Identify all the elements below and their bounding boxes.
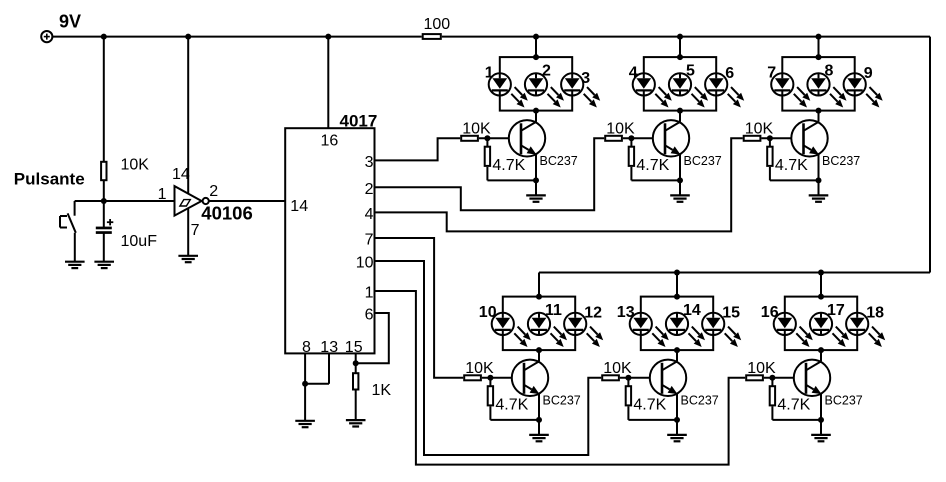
- wire emitter stage 6: [820, 394, 822, 435]
- svg-text:2: 2: [365, 181, 374, 198]
- junction top rail / LED group 1-3: [533, 34, 539, 40]
- wire 10K to base stage 1: [479, 137, 521, 139]
- wire bottom LED rail: [539, 272, 930, 274]
- ground (1K): [346, 420, 366, 426]
- LED 3: [561, 73, 600, 107]
- svg-text:14: 14: [172, 166, 190, 183]
- label 10K pullup: [121, 157, 150, 174]
- label 9V: [59, 11, 81, 31]
- wire pin3 to stage1 10K: [375, 138, 461, 160]
- svg-text:3: 3: [581, 70, 590, 87]
- node base stage 5: [625, 375, 631, 381]
- svg-text:8: 8: [302, 339, 311, 356]
- wire 10K to base stage 2: [623, 137, 665, 139]
- junction group 4-6 bottom: [677, 108, 683, 114]
- svg-text:4.7K: 4.7K: [636, 157, 669, 174]
- wire 4017 pin6 to pin15 node: [356, 313, 389, 363]
- LED 18: [846, 313, 885, 347]
- junction group 10-12 bottom: [536, 347, 542, 353]
- wire 4017 pin8 to ground: [304, 353, 306, 420]
- svg-text:4017: 4017: [340, 112, 378, 131]
- wire emitter stage 1: [535, 154, 537, 195]
- svg-text:Pulsante: Pulsante: [14, 169, 85, 188]
- label 4.7K stage 4: [495, 396, 528, 413]
- IC U2 4017 body: [285, 128, 374, 353]
- wire base node to 4.7K stage 5: [627, 378, 629, 386]
- wire node to inverter input: [104, 200, 175, 202]
- wire collector stage 4: [538, 350, 540, 362]
- label Pulsante: [14, 169, 85, 188]
- svg-text:15: 15: [345, 339, 363, 356]
- node base stage 6: [769, 375, 775, 381]
- svg-text:1: 1: [365, 285, 374, 302]
- wire 4.7K to emitter stage 4: [490, 407, 539, 420]
- resistor 4.7K (stage 5): [626, 386, 631, 405]
- label BC237 stage 4: [543, 393, 581, 407]
- label LED 17: [827, 302, 845, 319]
- svg-text:1: 1: [485, 64, 494, 81]
- svg-text:2: 2: [542, 62, 551, 79]
- transistor Q6 BC237: [794, 360, 830, 396]
- label 1K: [372, 382, 392, 399]
- LED 5: [669, 73, 708, 107]
- wire collector stage 1: [535, 110, 537, 122]
- label 40106: [201, 202, 252, 223]
- svg-text:11: 11: [545, 302, 562, 319]
- resistor 10K (stage 3 base): [744, 136, 761, 141]
- wire base node to 4.7K stage 2: [630, 138, 632, 146]
- LED 17: [810, 313, 849, 347]
- output bubble U1: [203, 198, 209, 204]
- resistor 10K (pullup): [101, 162, 106, 180]
- wire 1K to ground: [355, 391, 357, 421]
- LED 7: [771, 73, 810, 107]
- label 4.7K stage 6: [777, 396, 810, 413]
- resistor 10K (stage 4 base): [464, 375, 481, 380]
- resistor 4.7K (stage 1): [485, 147, 490, 166]
- junction group 4-6 top: [677, 54, 683, 60]
- label LED 12: [584, 304, 602, 321]
- svg-text:4.7K: 4.7K: [495, 396, 528, 413]
- ground (stage 3): [809, 195, 829, 201]
- svg-text:3: 3: [365, 154, 374, 171]
- wire capacitor to ground: [103, 234, 105, 262]
- svg-text:18: 18: [866, 304, 884, 321]
- junction top rail / 4017 pin16: [325, 34, 331, 40]
- LED 2: [525, 73, 564, 107]
- svg-text:40106: 40106: [201, 202, 252, 223]
- wire top rail right segment: [442, 36, 930, 38]
- svg-text:12: 12: [584, 304, 602, 321]
- junction group 1-3 top: [533, 54, 539, 60]
- node base stage 1: [484, 135, 490, 141]
- label 4017: [340, 112, 378, 131]
- node base stage 2: [628, 135, 634, 141]
- LED 12: [564, 313, 603, 347]
- wire 10K to base stage 3: [761, 137, 803, 139]
- svg-text:4.7K: 4.7K: [775, 157, 808, 174]
- wire collector stage 3: [818, 110, 820, 122]
- LED 14: [666, 313, 705, 347]
- wire pin7 to stage4 10K: [375, 238, 464, 378]
- label LED 18: [866, 304, 884, 321]
- svg-text:10K: 10K: [603, 360, 632, 377]
- wire 10K to base stage 5: [620, 377, 662, 379]
- junction emitter/4.7K stage 6: [818, 417, 824, 423]
- wire emitter stage 5: [676, 394, 678, 435]
- wire collector stage 5: [676, 350, 678, 362]
- LED 11: [528, 313, 567, 347]
- wire 4017 pin15 down: [355, 353, 357, 373]
- label pin 14 (4017 clock): [290, 198, 308, 215]
- wire 4.7K to emitter stage 5: [628, 407, 677, 420]
- label pin 6 (4017 output): [365, 307, 374, 324]
- wire collector stage 6: [820, 350, 822, 362]
- transistor Q1 BC237: [509, 120, 545, 156]
- svg-text:BC237: BC237: [684, 154, 722, 168]
- wire rail to group 1-3: [535, 37, 537, 58]
- svg-text:14: 14: [290, 198, 308, 215]
- label LED 4: [629, 64, 638, 81]
- svg-text:5: 5: [686, 62, 695, 79]
- node A (inverter input): [101, 198, 107, 204]
- svg-text:4: 4: [365, 206, 374, 223]
- label BC237 stage 6: [825, 393, 863, 407]
- label LED 5: [686, 62, 695, 79]
- LED 15: [702, 313, 741, 347]
- LED group 4-6 frame: [644, 57, 716, 111]
- label LED 10: [479, 304, 497, 321]
- label LED 8: [825, 62, 834, 79]
- label LED 9: [864, 65, 873, 82]
- label LED 3: [581, 70, 590, 87]
- transistor Q4 BC237: [512, 360, 548, 396]
- wire 4.7K to emitter stage 1: [487, 167, 536, 180]
- battery positive terminal +9V: [41, 31, 52, 42]
- svg-text:4: 4: [629, 64, 638, 81]
- label 4.7K stage 3: [775, 157, 808, 174]
- label pin 15: [345, 339, 363, 356]
- resistor 10K (stage 1 base): [461, 136, 478, 141]
- svg-text:4.7K: 4.7K: [633, 396, 666, 413]
- label pin 4 (4017 output): [365, 206, 374, 223]
- junction top rail / 10K pullup: [101, 34, 107, 40]
- svg-text:6: 6: [725, 65, 734, 82]
- ground (stage 6): [811, 435, 831, 441]
- wire collector stage 2: [679, 110, 681, 122]
- ground (stage 4): [529, 435, 549, 441]
- svg-text:1K: 1K: [372, 382, 392, 399]
- label pin 1 (4017 output): [365, 285, 374, 302]
- label pin 7 (4017 output): [365, 232, 374, 249]
- wire pin1 to stage6 10K: [375, 291, 746, 465]
- label LED 11: [545, 302, 562, 319]
- LED group 16-18 frame: [785, 297, 857, 351]
- junction top rail / 40106 pin14: [185, 34, 191, 40]
- wire 4.7K to emitter stage 6: [772, 407, 821, 420]
- wire 4.7K to emitter stage 3: [770, 167, 819, 180]
- wire 10K to input node: [103, 181, 105, 201]
- wire 4017 pin13 to pin8: [305, 353, 329, 383]
- LED 1: [489, 73, 528, 107]
- wire rail to 40106 pin14: [187, 37, 189, 193]
- svg-text:13: 13: [617, 304, 635, 321]
- ground (4017 pin8): [295, 421, 315, 427]
- label LED 2: [542, 62, 551, 79]
- svg-text:4.7K: 4.7K: [492, 157, 525, 174]
- wire node to switch: [75, 201, 104, 216]
- LED 16: [774, 313, 813, 347]
- ground (switch): [65, 262, 85, 268]
- svg-text:10K: 10K: [465, 360, 494, 377]
- ground (40106): [178, 256, 198, 262]
- junction group 13-15 bottom: [674, 347, 680, 353]
- junction emitter/4.7K stage 5: [674, 417, 680, 423]
- transistor Q5 BC237: [650, 360, 686, 396]
- wire top rail left segment: [52, 36, 421, 38]
- junction group 10-12 top: [536, 294, 542, 300]
- LED group 10-12 frame: [503, 297, 575, 351]
- svg-text:15: 15: [722, 304, 740, 321]
- label pin 13: [320, 339, 338, 356]
- label BC237 stage 3: [822, 154, 860, 168]
- junction group 16-18 bottom: [818, 347, 824, 353]
- junction group 1-3 bottom: [533, 108, 539, 114]
- junction group 16-18 top: [818, 294, 824, 300]
- resistor 10K (stage 2 base): [605, 136, 622, 141]
- svg-text:16: 16: [761, 304, 779, 321]
- wire rail to group 7-9: [818, 37, 820, 58]
- label 10K stage 1: [462, 121, 491, 138]
- label 4.7K stage 1: [492, 157, 525, 174]
- resistor 10K (stage 5 base): [602, 375, 619, 380]
- svg-text:7: 7: [767, 64, 776, 81]
- LED 9: [844, 73, 883, 107]
- label BC237 stage 1: [540, 154, 578, 168]
- LED 10: [492, 313, 531, 347]
- label LED 15: [722, 304, 740, 321]
- label pin 10 (4017 output): [356, 255, 374, 272]
- resistor 100 (series LED supply): [423, 34, 441, 39]
- wire 40106 pin7 to ground: [187, 209, 189, 256]
- junction group 7-9 top: [816, 54, 822, 60]
- wire base node to 4.7K stage 1: [486, 138, 488, 146]
- wire emitter stage 2: [679, 154, 681, 195]
- svg-text:14: 14: [683, 302, 701, 319]
- junction emitter/4.7K stage 2: [677, 177, 683, 183]
- svg-text:10: 10: [356, 255, 374, 272]
- ground (stage 2): [670, 195, 690, 201]
- wire 10K to base stage 4: [482, 377, 524, 379]
- wire pin4 to stage3 10K: [375, 138, 743, 231]
- LED group 1-3 frame: [500, 57, 572, 111]
- ground (stage 1): [526, 195, 546, 201]
- ground (stage 5): [667, 435, 687, 441]
- svg-text:BC237: BC237: [825, 393, 863, 407]
- svg-text:10K: 10K: [462, 121, 491, 138]
- wire pin2 to stage2 10K: [375, 138, 605, 210]
- wire inverter output to 4017 pin14: [209, 200, 285, 202]
- svg-text:10K: 10K: [747, 360, 776, 377]
- svg-text:BC237: BC237: [540, 154, 578, 168]
- label pin 2 (4017 output): [365, 181, 374, 198]
- label 4.7K stage 2: [636, 157, 669, 174]
- label LED 14: [683, 302, 701, 319]
- transistor Q3 BC237: [791, 120, 827, 156]
- junction top rail / LED group 4-6: [677, 34, 683, 40]
- svg-text:1: 1: [158, 186, 167, 203]
- label 10uF: [121, 233, 158, 250]
- wire right edge drop: [929, 37, 931, 273]
- svg-text:7: 7: [365, 232, 374, 249]
- svg-text:10uF: 10uF: [121, 233, 158, 250]
- junction bottom rail / LED group 13-15: [674, 270, 680, 276]
- wire rail to group 4-6: [679, 37, 681, 58]
- svg-text:10K: 10K: [121, 157, 150, 174]
- label pin 7 (40106 gnd): [191, 222, 200, 239]
- junction emitter/4.7K stage 3: [816, 177, 822, 183]
- svg-text:16: 16: [321, 133, 339, 150]
- label LED 7: [767, 64, 776, 81]
- wire switch to ground: [74, 233, 76, 262]
- svg-text:BC237: BC237: [543, 393, 581, 407]
- resistor 10K (stage 6 base): [746, 375, 763, 380]
- label LED 16: [761, 304, 779, 321]
- node base stage 3: [767, 135, 773, 141]
- wire base node to 4.7K stage 6: [771, 378, 773, 386]
- label 10K stage 5: [603, 360, 632, 377]
- label 10K stage 6: [747, 360, 776, 377]
- resistor 4.7K (stage 2): [629, 147, 634, 166]
- svg-text:BC237: BC237: [681, 393, 719, 407]
- junction emitter/4.7K stage 1: [533, 177, 539, 183]
- wire 4.7K to emitter stage 2: [631, 167, 680, 180]
- resistor 4.7K (stage 6): [770, 386, 775, 405]
- svg-text:10: 10: [479, 304, 497, 321]
- svg-text:6: 6: [365, 307, 374, 324]
- label BC237 stage 2: [684, 154, 722, 168]
- wire 10K to base stage 6: [764, 377, 806, 379]
- label pin 14 (40106 vdd): [172, 166, 190, 183]
- junction pin8/pin13: [302, 381, 308, 387]
- wire bottom rail to group 13-15: [676, 273, 678, 297]
- LED 6: [705, 73, 744, 107]
- node base stage 4: [487, 375, 493, 381]
- wire pin10 to stage5 10K: [375, 261, 602, 455]
- junction top rail / LED group 7-9: [816, 34, 822, 40]
- svg-text:7: 7: [191, 222, 200, 239]
- wire bottom rail to group 16-18: [820, 273, 822, 297]
- resistor 1K (reset): [353, 373, 358, 389]
- LED group 7-9 frame: [782, 57, 854, 111]
- svg-text:17: 17: [827, 302, 845, 319]
- svg-text:9: 9: [864, 65, 873, 82]
- label pin 1 (40106 input): [158, 186, 167, 203]
- label pin 3 (4017 output): [365, 154, 374, 171]
- pushbutton S1: [60, 213, 76, 232]
- label LED 13: [617, 304, 635, 321]
- label 10K stage 4: [465, 360, 494, 377]
- capacitor C1 10uF: [96, 219, 114, 234]
- LED group 13-15 frame: [641, 297, 713, 351]
- label pin 2 (40106 output): [209, 183, 218, 200]
- svg-text:10K: 10K: [745, 121, 774, 138]
- resistor 4.7K (stage 3): [767, 147, 772, 166]
- label BC237 stage 5: [681, 393, 719, 407]
- label 100: [424, 16, 451, 33]
- label 4.7K stage 5: [633, 396, 666, 413]
- label 10K stage 2: [606, 121, 635, 138]
- label pin 16: [321, 133, 339, 150]
- wire emitter stage 4: [538, 394, 540, 435]
- LED 13: [630, 313, 669, 347]
- label LED 6: [725, 65, 734, 82]
- LED 4: [633, 73, 672, 107]
- junction pin15/pin6/1K: [353, 360, 359, 366]
- junction group 13-15 top: [674, 294, 680, 300]
- resistor 4.7K (stage 4): [488, 386, 493, 405]
- label LED 1: [485, 64, 494, 81]
- svg-text:9V: 9V: [59, 11, 81, 31]
- svg-text:4.7K: 4.7K: [777, 396, 810, 413]
- wire rail to 4017 pin16: [327, 37, 329, 129]
- svg-text:10K: 10K: [606, 121, 635, 138]
- svg-text:8: 8: [825, 62, 834, 79]
- label 10K stage 3: [745, 121, 774, 138]
- LED 8: [807, 73, 846, 107]
- wire base node to 4.7K stage 4: [489, 378, 491, 386]
- ground (capacitor): [94, 262, 114, 268]
- wire node to capacitor: [103, 201, 105, 227]
- wire emitter stage 3: [818, 154, 820, 195]
- junction emitter/4.7K stage 4: [536, 417, 542, 423]
- junction group 7-9 bottom: [816, 108, 822, 114]
- svg-text:BC237: BC237: [822, 154, 860, 168]
- transistor Q2 BC237: [653, 120, 689, 156]
- wire rail to 10K pullup: [103, 37, 105, 161]
- inverter U1 (40106 schmitt): [175, 186, 202, 216]
- svg-text:100: 100: [424, 16, 451, 33]
- junction bottom rail / LED group 16-18: [818, 270, 824, 276]
- wire base node to 4.7K stage 3: [769, 138, 771, 146]
- svg-text:2: 2: [209, 183, 218, 200]
- wire bottom rail corner to group 10-12: [538, 273, 540, 297]
- label pin 8: [302, 339, 311, 356]
